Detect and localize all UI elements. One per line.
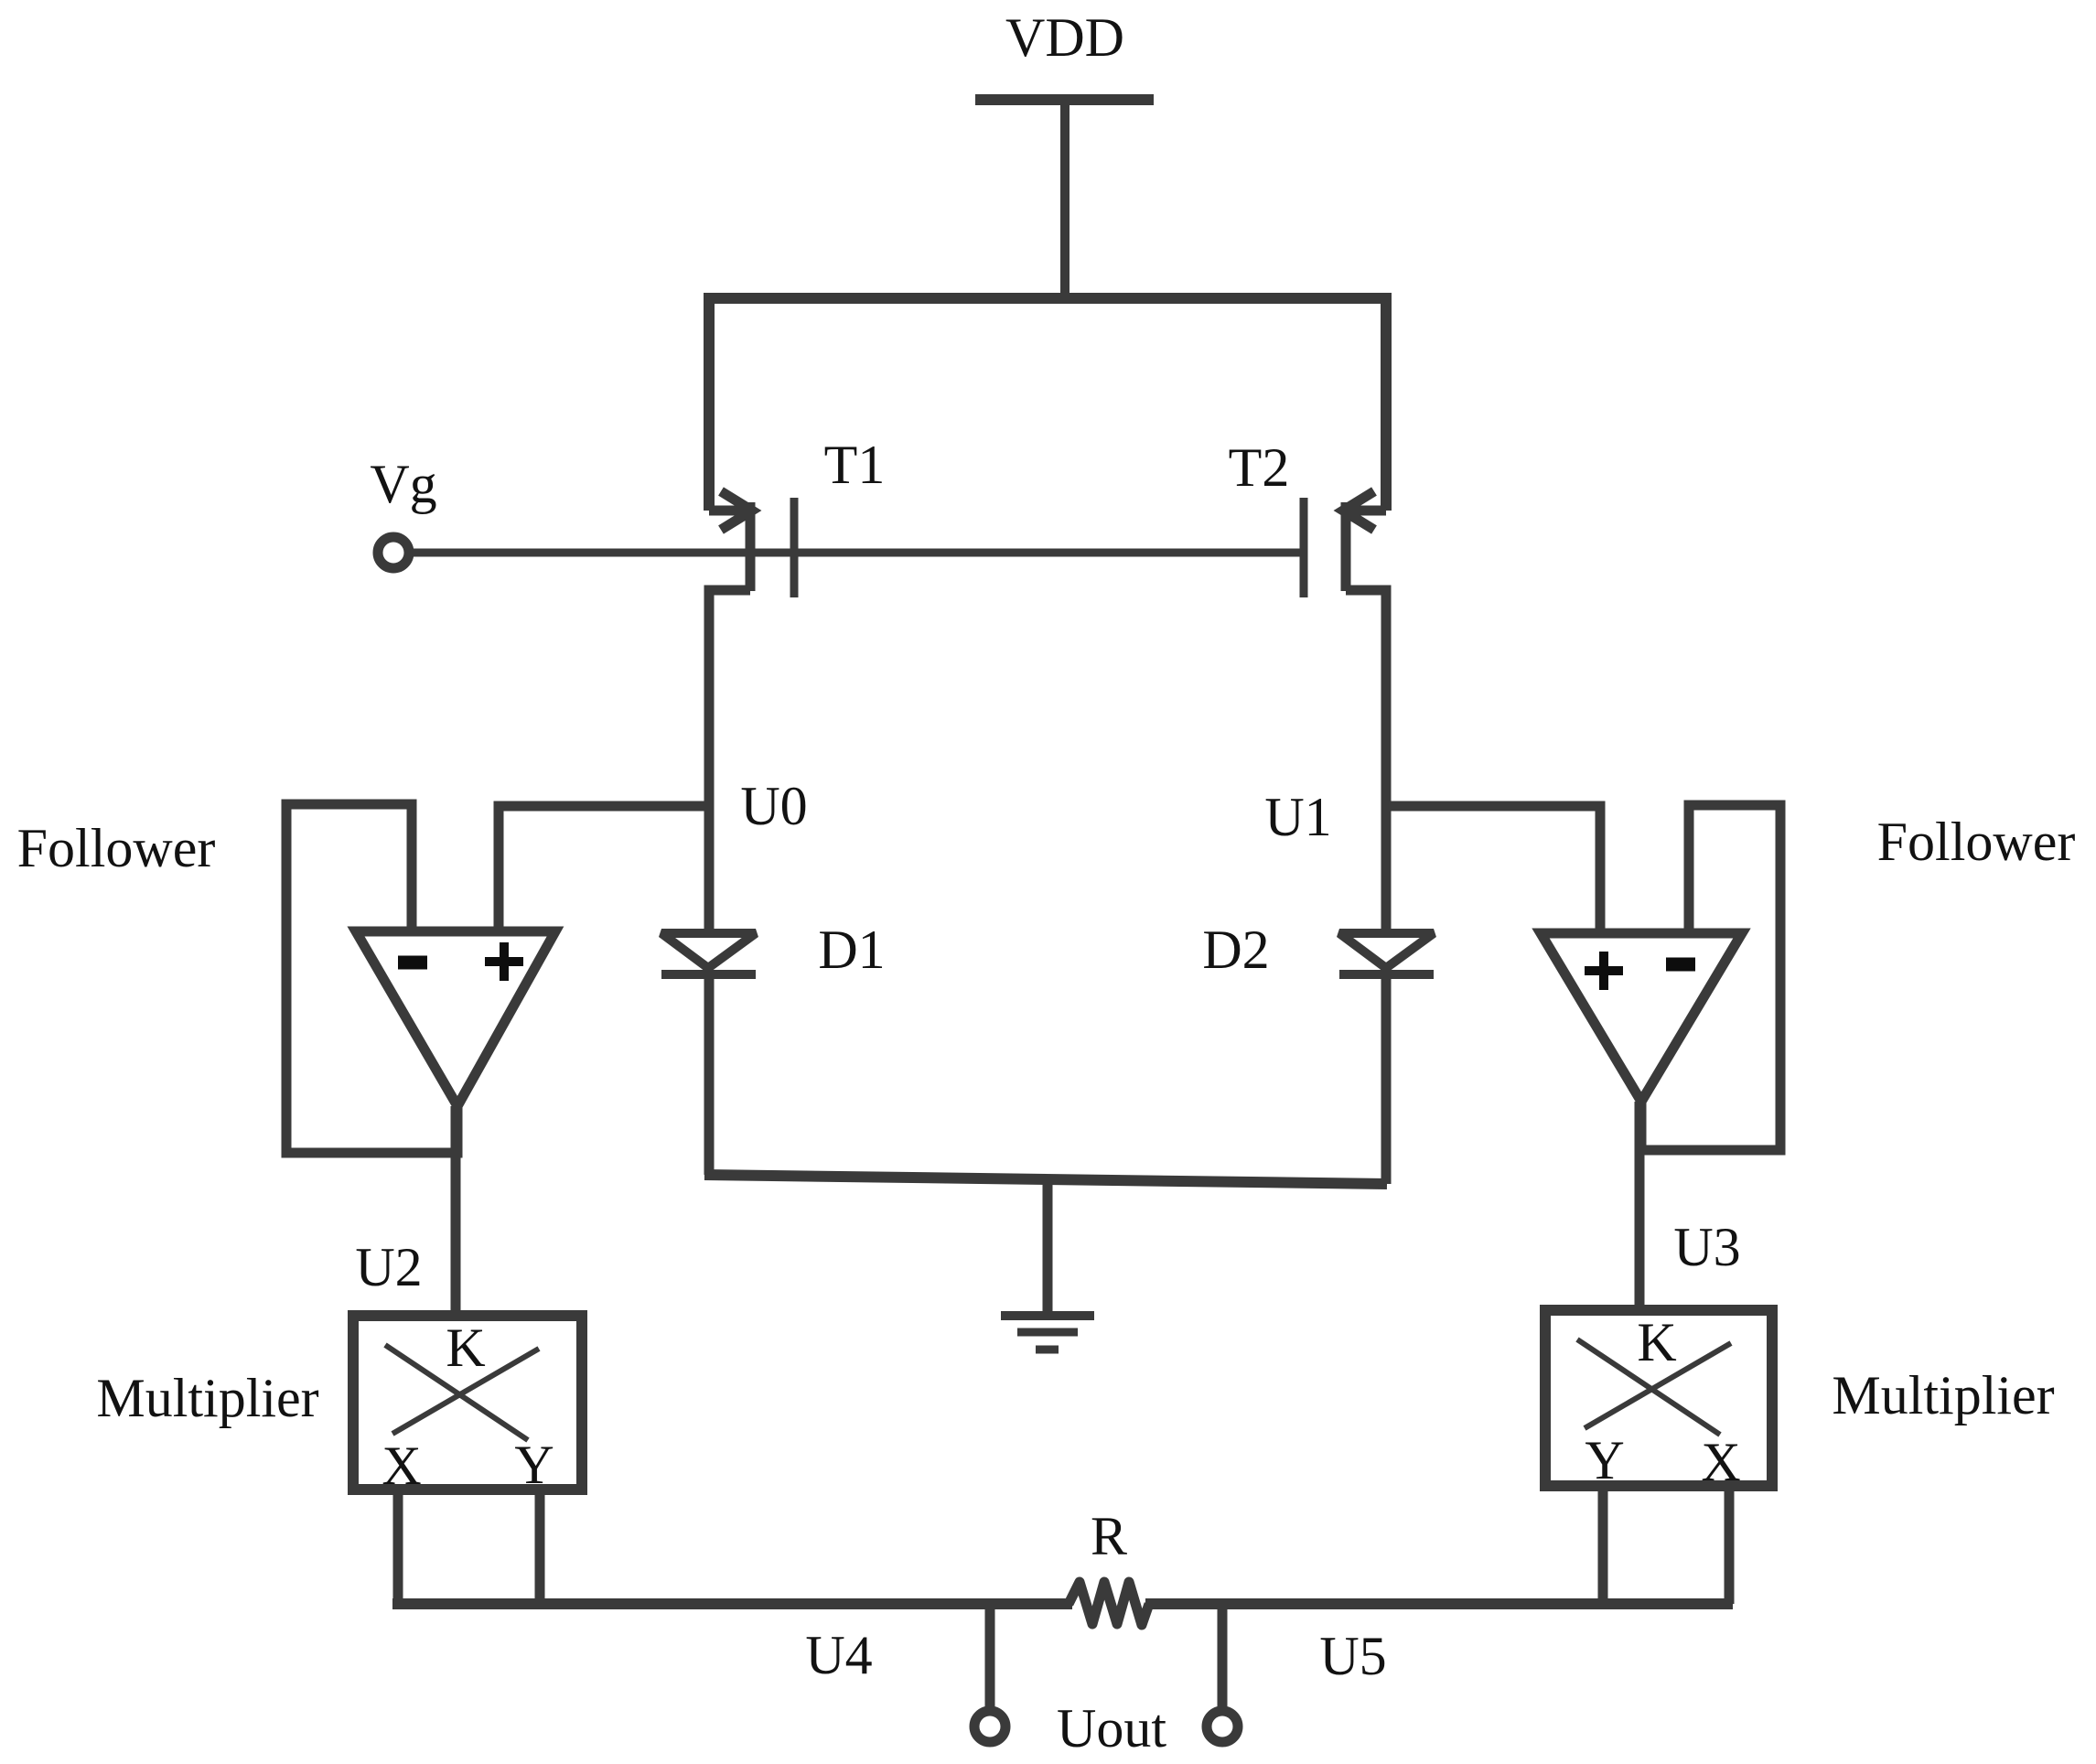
svg-text:U1: U1 (1264, 787, 1331, 847)
svg-text:T2: T2 (1229, 437, 1290, 498)
svg-text:D2: D2 (1202, 920, 1269, 980)
svg-text:D1: D1 (818, 920, 885, 980)
svg-text:U0: U0 (740, 776, 807, 836)
svg-text:U5: U5 (1319, 1626, 1386, 1686)
svg-text:X: X (382, 1436, 421, 1496)
svg-text:U2: U2 (355, 1237, 422, 1297)
svg-text:U3: U3 (1673, 1217, 1740, 1277)
svg-text:Multiplier: Multiplier (1832, 1365, 2054, 1425)
svg-text:X: X (1701, 1432, 1740, 1492)
svg-text:T1: T1 (824, 435, 886, 495)
svg-text:Follower: Follower (1877, 812, 2076, 872)
svg-text:VDD: VDD (1005, 7, 1124, 68)
svg-text:U4: U4 (805, 1625, 872, 1685)
svg-text:R: R (1091, 1506, 1127, 1566)
svg-text:Multiplier: Multiplier (96, 1368, 318, 1428)
svg-text:K: K (1637, 1312, 1676, 1372)
svg-text:Y: Y (1585, 1430, 1624, 1490)
svg-text:Vg: Vg (370, 454, 436, 514)
svg-text:Uout: Uout (1057, 1698, 1166, 1759)
svg-text:Follower: Follower (17, 818, 216, 878)
svg-text:Y: Y (514, 1435, 554, 1495)
svg-text:K: K (446, 1318, 485, 1378)
